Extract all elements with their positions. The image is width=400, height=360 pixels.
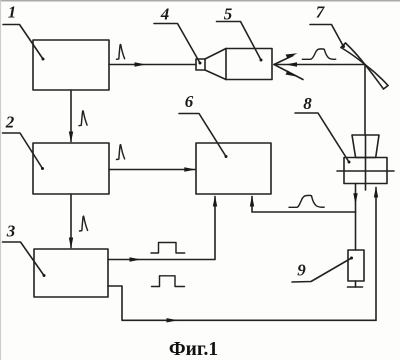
pulse spike S1 bbox=[117, 44, 125, 59]
square pulse P2 bbox=[152, 276, 185, 287]
square pulse P1 bbox=[151, 243, 185, 254]
hump waveform HB bbox=[289, 195, 324, 207]
label 2 bbox=[3, 113, 45, 171]
arrow on W6 into block6 bbox=[250, 195, 254, 206]
element 9 resistor bbox=[348, 250, 365, 287]
block 1 bbox=[33, 40, 109, 90]
element 5 chamber bbox=[205, 49, 272, 80]
svg-text:1: 1 bbox=[8, 3, 17, 22]
pulse spike S2 bbox=[79, 111, 87, 126]
wire W11 beam line to corner and down to element8 bbox=[330, 65, 365, 136]
pulse spike S4 bbox=[80, 216, 88, 231]
wire W1 block1 to element4 bbox=[109, 64, 196, 66]
scan border top bbox=[0, 0, 400, 2]
wire W7 element8 down to junction bbox=[355, 184, 357, 213]
svg-text:2: 2 bbox=[5, 113, 15, 132]
arrow on W10 bbox=[167, 318, 179, 322]
wire W5 block3 to block6 bottom-left bbox=[108, 197, 215, 260]
beam arrow lower scattered bbox=[274, 65, 303, 80]
arrow on W1 bbox=[135, 62, 147, 66]
element 8 detector bbox=[337, 135, 394, 190]
svg-text:8: 8 bbox=[303, 94, 312, 113]
scan border left bbox=[0, 0, 2, 360]
beam arrow middle into element5 bbox=[274, 62, 330, 66]
block 2 bbox=[33, 143, 109, 194]
arrow on W2 bbox=[69, 132, 73, 143]
element 4 window bbox=[196, 59, 205, 70]
svg-text:3: 3 bbox=[6, 222, 16, 241]
arrow on W5 into block6 bbox=[213, 195, 217, 206]
arrow on W9 up bbox=[374, 186, 378, 197]
block 3 bbox=[34, 249, 108, 297]
pulse spike S3 bbox=[117, 145, 125, 160]
label 6 bbox=[179, 92, 228, 158]
wire W10 block3 bottom output bbox=[108, 286, 376, 320]
wire W2 block1 to block2 bbox=[70, 90, 72, 142]
arrow on W7 down bbox=[353, 193, 357, 204]
svg-text:Фиг.1: Фиг.1 bbox=[169, 339, 218, 360]
wire W9 bottom wire up into element8 bbox=[375, 188, 377, 321]
svg-text:6: 6 bbox=[185, 92, 194, 111]
beam arrows at element5: upper scattered bbox=[274, 53, 298, 64]
label 3 bbox=[3, 222, 46, 278]
element 7 mirror bbox=[341, 43, 388, 89]
wire W4 block2 to block3 bbox=[70, 194, 72, 248]
block 6 bbox=[196, 143, 271, 194]
hump waveform HA bbox=[302, 49, 335, 59]
arrow on W5 horizontal bbox=[130, 257, 142, 261]
arrow on W4 bbox=[69, 238, 73, 249]
wire W6 junction to block6 bottom-right bbox=[252, 197, 356, 213]
label 7 bbox=[310, 3, 345, 49]
wire W8 junction to element9 bbox=[355, 212, 357, 250]
label 4 bbox=[154, 5, 202, 65]
svg-text:9: 9 bbox=[297, 261, 306, 280]
svg-text:5: 5 bbox=[224, 5, 233, 24]
label 5 bbox=[217, 5, 263, 62]
svg-text:7: 7 bbox=[316, 3, 326, 22]
svg-text:4: 4 bbox=[160, 5, 170, 24]
wire W3 block2 to block6 bbox=[109, 169, 195, 171]
label 9 bbox=[292, 257, 353, 283]
label 8 bbox=[295, 94, 351, 164]
arrow on W3 bbox=[184, 167, 196, 171]
label 1 bbox=[3, 3, 45, 61]
